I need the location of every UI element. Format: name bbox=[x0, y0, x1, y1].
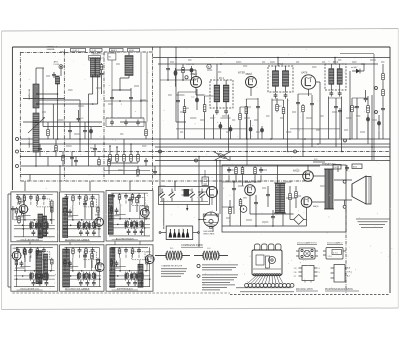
audio section box bbox=[222, 165, 346, 232]
svg-text:P.I.1: P.I.1 bbox=[219, 76, 225, 80]
mid-left extra R28 bbox=[98, 157, 101, 167]
V4 out cap C28 bbox=[254, 195, 258, 226]
legend text bbox=[161, 264, 187, 276]
subcircuit box B2 bbox=[60, 245, 105, 291]
osc bank wires bbox=[109, 139, 138, 175]
osc resistor bank R6 bbox=[130, 153, 133, 163]
upper band link wire 1 bbox=[176, 92, 196, 95]
wire top rail 1 bbox=[153, 57, 391, 59]
tuning eye label bbox=[204, 231, 215, 236]
V1 coupling blob C2a bbox=[191, 89, 199, 110]
wire top rail 2 bbox=[158, 63, 378, 65]
svg-text:6AQ5: 6AQ5 bbox=[293, 170, 300, 173]
shield box (dash-dot) oscillator bbox=[104, 47, 153, 190]
socket diagram S2 bbox=[323, 248, 346, 260]
svg-text:6BE6: 6BE6 bbox=[191, 72, 198, 76]
vertical wire x160 bbox=[159, 47, 161, 195]
shield box (dash-dot) antenna bbox=[20, 52, 102, 181]
bus wire heater bbox=[21, 143, 391, 145]
A2 extra parts bbox=[83, 200, 93, 219]
left margin wire bbox=[8, 194, 11, 287]
right chain C23 bbox=[381, 97, 385, 112]
audio wires bbox=[222, 165, 325, 227]
padder capacitor C8 bbox=[129, 88, 133, 118]
svg-text:ACCORDO SUL CANALE: ACCORDO SUL CANALE bbox=[65, 238, 90, 241]
V1 anode wire bbox=[176, 70, 205, 95]
tuner mesh v1 bbox=[42, 68, 44, 127]
coil adjust arrow bbox=[28, 117, 45, 133]
RF choke L3 bbox=[55, 76, 60, 94]
node e bbox=[195, 159, 198, 163]
band parts row r2 bbox=[229, 125, 233, 139]
V4 cathode res R24 bbox=[239, 198, 242, 226]
tuner mesh wire h3 bbox=[36, 103, 98, 105]
mid coupling cap C10 bbox=[83, 122, 87, 139]
output tube V5 bbox=[293, 170, 313, 182]
gang trimmer C6 bbox=[124, 120, 128, 126]
tuner capacitor C3 bbox=[89, 127, 93, 139]
shield bottom bus (dash-dot) bbox=[21, 180, 313, 182]
audio inner wires2 bbox=[222, 181, 296, 198]
upper band link wire 5 bbox=[329, 97, 369, 99]
V4 socket circle bbox=[240, 206, 247, 213]
svg-text:6AT6: 6AT6 bbox=[301, 70, 308, 74]
top note text bbox=[92, 53, 106, 56]
tuner resistor R2 bbox=[47, 122, 50, 139]
grid cluster cap C13 bbox=[166, 58, 177, 87]
band coil label bbox=[89, 57, 105, 60]
subcircuit box A1 oscillator bbox=[11, 192, 58, 242]
IF transformer T-IF3 bbox=[325, 60, 346, 97]
svg-text:O.M. 1: O.M. 1 bbox=[73, 50, 80, 52]
bus wire aux 1 bbox=[155, 160, 390, 162]
chassis fan leads bbox=[248, 276, 284, 283]
svg-text:1 2 6: 1 2 6 bbox=[328, 256, 332, 258]
audio bottom res R27 bbox=[229, 200, 232, 226]
tuner mesh wire h4 bbox=[23, 121, 102, 123]
V2 cathode res R14 bbox=[245, 99, 248, 139]
antenna coil L2 bbox=[33, 113, 40, 160]
svg-text:O.C.: O.C. bbox=[207, 248, 212, 250]
caption COMPLESSI bbox=[181, 244, 203, 247]
subcircuit box A3 alti bbox=[106, 191, 153, 241]
svg-text:5: 5 bbox=[319, 272, 320, 274]
audio top res R22 bbox=[241, 166, 244, 175]
band switch coil pair L4b bbox=[95, 58, 100, 77]
caption piastr bbox=[325, 288, 359, 291]
socket S1 label bbox=[297, 242, 317, 245]
vertical wire x176 bbox=[176, 47, 186, 122]
control cap C12 bbox=[153, 166, 157, 175]
tuner mesh wire h2 bbox=[39, 99, 80, 101]
response box leads bbox=[159, 232, 199, 234]
volume pot R9 bbox=[108, 158, 111, 175]
upper band link wire 2 bbox=[205, 96, 231, 118]
upper band link wire 4 bbox=[272, 94, 312, 100]
cluster wires bbox=[160, 64, 196, 81]
speaker wires bbox=[334, 166, 352, 208]
svg-text:CAMBIO dl: CAMBIO dl bbox=[47, 45, 58, 48]
note bullet 2 bbox=[197, 274, 238, 290]
top small boxes near speaker bbox=[333, 164, 362, 171]
connector drops bbox=[25, 157, 230, 248]
V3 anode wire bbox=[309, 82, 321, 144]
osc coupling cap C9 bbox=[110, 90, 114, 118]
control resistor R10 bbox=[137, 166, 140, 176]
title box MOD bbox=[128, 48, 140, 52]
osc resistor bank R7 bbox=[137, 153, 140, 163]
osc resistor bank R3 bbox=[109, 153, 112, 163]
right notes text block bbox=[356, 219, 390, 227]
converter tube V1 bbox=[191, 72, 202, 88]
V2 anode wire bbox=[246, 88, 251, 166]
svg-text:PIRIA: PIRIA bbox=[60, 50, 66, 53]
mid res R15 bbox=[276, 98, 283, 112]
svg-text:EM GRID: EM GRID bbox=[204, 231, 214, 233]
socket diagram S1 bbox=[296, 248, 318, 259]
svg-text:R.P.: R.P. bbox=[314, 159, 318, 161]
socket S2 label bbox=[327, 242, 343, 245]
bus wire AVC (dash-dot) bbox=[21, 151, 391, 153]
eye feed wires bbox=[216, 160, 221, 214]
osc wire top bbox=[112, 78, 131, 91]
svg-text:C.2: C.2 bbox=[191, 97, 194, 99]
svg-text:SUPPRESS ALTI: SUPPRESS ALTI bbox=[117, 288, 133, 291]
inter-row connector wires bbox=[30, 241, 140, 245]
phono crossing wires bbox=[214, 152, 230, 161]
tuner mesh v3 bbox=[79, 100, 81, 152]
bus wire B+ bbox=[21, 138, 391, 140]
svg-text:6BE6: 6BE6 bbox=[13, 248, 19, 250]
audio res R25 bbox=[289, 186, 294, 219]
chassis top view outline bbox=[252, 250, 282, 275]
V4 grid cap C27 bbox=[232, 182, 236, 200]
audio top cap C26 bbox=[259, 167, 263, 173]
upper band link wire 3 bbox=[240, 99, 258, 107]
IF parts C20 bbox=[338, 108, 342, 139]
bottom dashed border bbox=[12, 293, 390, 295]
oscillator coil L5 bbox=[125, 52, 134, 78]
tuner mesh v4 bbox=[88, 122, 90, 166]
label antenna coil L1 bbox=[28, 88, 31, 100]
osc resistor bank R4 bbox=[116, 153, 119, 163]
audio top cap C25 bbox=[227, 167, 231, 173]
subcircuit box A2 canale bbox=[60, 192, 105, 242]
mid-left extra R29 bbox=[55, 139, 58, 157]
svg-text:ACCORD RIV ALTI: ACCORD RIV ALTI bbox=[116, 238, 134, 241]
V4 wires bbox=[222, 195, 250, 214]
mid-left extra C33 bbox=[38, 144, 42, 157]
coil drawing L6 bbox=[155, 248, 190, 260]
driver transformer T1 bbox=[274, 165, 286, 226]
volume pot R18 bbox=[366, 96, 370, 144]
title text CAMBIO bbox=[47, 45, 66, 54]
band coil resistor chain R1 bbox=[100, 63, 104, 77]
svg-text:OSCILLATORE LOC: OSCILLATORE LOC bbox=[20, 288, 40, 291]
speaker LS1 bbox=[352, 176, 371, 204]
terminal strip view 2 bbox=[331, 265, 352, 283]
svg-text:6AQ5: 6AQ5 bbox=[313, 205, 319, 208]
diode wires bbox=[350, 63, 365, 139]
right blob C22 bbox=[366, 115, 370, 139]
chassis tube holes bbox=[255, 244, 282, 250]
T1 cap C29 bbox=[266, 186, 270, 207]
second AF tube V8 bbox=[198, 187, 217, 206]
output tube V6 bbox=[301, 197, 319, 208]
note bullet 1 bbox=[197, 264, 238, 270]
tuner mesh v2 bbox=[52, 104, 54, 139]
trimmer row center core bbox=[182, 189, 192, 197]
IF transformer T-IF2 bbox=[268, 62, 293, 99]
svg-text:COMPLESSI FILTRI: COMPLESSI FILTRI bbox=[181, 244, 203, 247]
svg-text:OSCILLATORE 988: OSCILLATORE 988 bbox=[20, 238, 39, 241]
gang trimmer C5 bbox=[110, 120, 114, 126]
right chain wires bbox=[371, 95, 383, 160]
mid res R16 bbox=[282, 100, 285, 139]
osc box vertical wires bbox=[104, 52, 148, 122]
tuner capacitor C2 bbox=[77, 110, 85, 122]
T-IF1 bottom wires bbox=[214, 64, 229, 152]
svg-text:PIASTRINA REGOLAZION: PIASTRINA REGOLAZION bbox=[325, 288, 353, 291]
node c bbox=[294, 150, 297, 154]
coil drawing L7 bbox=[194, 248, 228, 260]
right column circled pins bbox=[375, 87, 378, 115]
V1 cathode resistor R12 bbox=[183, 99, 190, 139]
antenna loop coil L1 bbox=[33, 68, 40, 113]
upper band link wire 6 bbox=[176, 128, 340, 130]
svg-text:I GAMME RICEVUTE: I GAMME RICEVUTE bbox=[161, 264, 183, 267]
IF amp tube V2 bbox=[246, 72, 257, 88]
component value labels speckle bbox=[42, 60, 384, 222]
T-IF2 bottom wires bbox=[272, 58, 288, 152]
B2 extra parts bbox=[83, 252, 93, 268]
left border bus terminals bbox=[16, 138, 19, 168]
V1 screen resistor R13 bbox=[203, 96, 206, 139]
control wires bbox=[30, 157, 150, 182]
bus wire screen bbox=[155, 146, 390, 148]
antenna section wires bbox=[35, 68, 61, 167]
audio top res R21 bbox=[235, 166, 238, 175]
bus wire aux 2 bbox=[21, 165, 321, 167]
bus junction dots bbox=[57, 138, 351, 157]
audio cap C30 bbox=[271, 210, 275, 226]
title box OSC bbox=[71, 48, 86, 52]
svg-text:c: c bbox=[294, 152, 295, 154]
phono connector box bbox=[202, 170, 209, 186]
output transformer T2 bbox=[324, 169, 334, 209]
svg-text:INTER: INTER bbox=[238, 73, 245, 75]
audio res R26 bbox=[295, 186, 298, 208]
svg-text:GAMMA OC: GAMMA OC bbox=[28, 136, 31, 148]
svg-text:ad 467: ad 467 bbox=[351, 67, 358, 69]
label coil L2 bbox=[28, 136, 31, 148]
chassis bottom scallops bbox=[253, 274, 280, 276]
IF parts C19 bbox=[334, 98, 338, 147]
field coil dash line bbox=[345, 209, 347, 293]
mid resistor R8 bbox=[120, 122, 147, 139]
title box AER bbox=[110, 48, 124, 52]
tone cap C11 bbox=[144, 158, 148, 166]
T-IF3 bottom wires bbox=[329, 58, 342, 152]
tuner mesh wire h1 bbox=[23, 94, 64, 99]
right chain R19 bbox=[382, 64, 385, 81]
bus wire aux 3 bbox=[21, 174, 311, 176]
bottom right footer squiggle bbox=[236, 287, 291, 289]
svg-text:P.O.: P.O. bbox=[170, 248, 174, 250]
subcircuit box B3 bbox=[106, 245, 155, 291]
node a bbox=[207, 64, 211, 68]
shield partition (dash-dot) bbox=[63, 52, 65, 181]
rail junctions bbox=[175, 57, 363, 65]
svg-text:4: 4 bbox=[319, 268, 320, 270]
osc resistor bank R5 bbox=[123, 153, 126, 163]
bead row caption bbox=[240, 291, 294, 293]
det filter cap C21 bbox=[355, 98, 359, 139]
top note box bbox=[89, 56, 101, 61]
mid-left extra C31 bbox=[93, 144, 97, 157]
subcircuit box B1 bbox=[11, 245, 58, 291]
V3 parts bbox=[296, 94, 304, 157]
band parts row r1 bbox=[219, 122, 223, 139]
gang trimmer C7 bbox=[136, 120, 140, 126]
svg-text:ANTENNA PO-OC: ANTENNA PO-OC bbox=[89, 57, 105, 60]
svg-text:C.12 7.35: C.12 7.35 bbox=[186, 64, 194, 66]
band switch wires bbox=[89, 75, 102, 122]
title box RF bbox=[90, 48, 102, 52]
V2 bypass cap C16 bbox=[256, 98, 260, 139]
band switch coil pair L4a bbox=[90, 58, 95, 77]
chassis inner parts bbox=[253, 255, 281, 269]
node b bbox=[159, 150, 162, 154]
bus wire ground bbox=[21, 156, 391, 158]
plug coupling cap C1 bbox=[52, 72, 56, 78]
schematic border frame bbox=[12, 47, 390, 293]
band parts row r3 bbox=[239, 107, 242, 139]
caption zoccoli bbox=[296, 289, 318, 291]
osc section label box bbox=[108, 53, 116, 60]
RP labels bbox=[313, 159, 336, 166]
A3 extra parts bbox=[128, 196, 138, 212]
IF response curve box bbox=[166, 226, 193, 240]
svg-text:BROCHES: BROCHES bbox=[204, 234, 215, 236]
det filter res R17 bbox=[351, 98, 358, 139]
detector diode D1 bbox=[351, 67, 364, 74]
terminal strip view 1 bbox=[294, 266, 320, 283]
tuner cap C4 bbox=[68, 122, 72, 139]
band parts blob C17 bbox=[260, 126, 264, 139]
trimmer row box bbox=[159, 187, 210, 205]
right rail parts bbox=[364, 90, 368, 102]
detector tube V3 bbox=[301, 70, 315, 89]
eye wires bbox=[198, 157, 213, 241]
right chain blob C24 bbox=[377, 115, 381, 139]
terminal bead row bbox=[245, 284, 294, 288]
grid cluster res R11 bbox=[182, 64, 185, 80]
tuning eye tube V7 bbox=[203, 212, 219, 228]
right chain R20 bbox=[382, 81, 385, 97]
gang frame bbox=[106, 118, 144, 127]
mid cap C18 bbox=[310, 95, 314, 147]
audio top res R23 bbox=[254, 166, 257, 175]
V1 grid cap C14 bbox=[176, 92, 180, 139]
audio top wires bbox=[229, 175, 261, 186]
mid-left extra C32 bbox=[74, 157, 78, 167]
V2 screen cap C15 bbox=[249, 120, 253, 139]
tuner mesh wire h5 bbox=[43, 126, 102, 128]
svg-text:P.I.2: P.I.2 bbox=[278, 62, 284, 66]
svg-text:ZOCCOLI VISTI: ZOCCOLI VISTI bbox=[296, 289, 313, 291]
AF tube V4 bbox=[243, 180, 255, 199]
inner top line bbox=[340, 53, 374, 55]
svg-text:d: d bbox=[344, 141, 345, 143]
svg-text:G F.2: G F.2 bbox=[347, 272, 352, 274]
left lower parts bbox=[62, 152, 74, 167]
node d bbox=[344, 139, 347, 143]
svg-text:C.M.: C.M. bbox=[92, 50, 97, 52]
svg-text:P.I.3: P.I.3 bbox=[333, 60, 339, 64]
phase diamond bbox=[294, 214, 304, 224]
antenna plug P1 bbox=[54, 61, 63, 73]
svg-text:PLUG: PLUG bbox=[54, 64, 60, 66]
IF transformer T-IF1 bbox=[210, 73, 245, 115]
svg-text:ACCORDO SUL CANALE: ACCORDO SUL CANALE bbox=[65, 288, 90, 291]
row box wires bbox=[164, 181, 189, 229]
B1 extra parts bbox=[24, 248, 32, 262]
A1 extra parts bbox=[11, 197, 53, 225]
svg-text:GAMMA: GAMMA bbox=[47, 48, 55, 51]
